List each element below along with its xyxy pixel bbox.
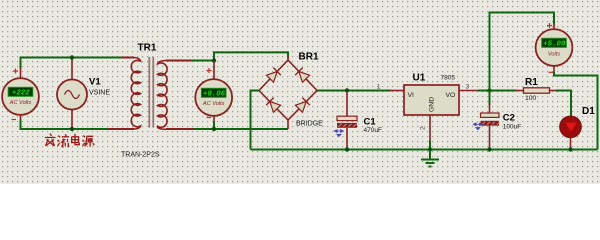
wire riser to bridge top bbox=[214, 52, 288, 60]
diode BR1 bottom-right bbox=[295, 98, 309, 113]
wire primary top lead red bbox=[122, 57, 134, 59]
wire VM2 bottom pin bbox=[213, 116, 215, 123]
transformer TR1 secondary coil bbox=[157, 61, 167, 130]
diode BR1 bottom-left bbox=[266, 98, 280, 113]
wire VM3 bottom pin red bbox=[553, 66, 555, 74]
wire V1 bottom pin bbox=[71, 109, 73, 129]
node primary top junction bbox=[70, 55, 74, 59]
capacitor C2 bbox=[481, 113, 500, 126]
wire node to R1 bbox=[490, 90, 517, 92]
wire bridge left to ground rail bbox=[251, 91, 260, 150]
wire R1 right lead bbox=[550, 90, 558, 92]
transformer TR1 core bbox=[148, 57, 150, 128]
polarity - mark VM2 bbox=[207, 117, 212, 119]
wire VM3 top pin red bbox=[553, 24, 555, 30]
polarity + mark VM3 bbox=[547, 23, 552, 28]
svg-text:3: 3 bbox=[466, 84, 470, 91]
marker C2 blue bbox=[473, 123, 482, 130]
diode BR1 top-right bbox=[295, 68, 309, 83]
node C1 bottom junction bbox=[345, 147, 349, 151]
svg-text:VO: VO bbox=[446, 92, 456, 99]
wire secondary bottom green to bridge bbox=[193, 128, 288, 130]
wire C2 bottom pin bbox=[489, 126, 491, 150]
wire ground rail bbox=[251, 149, 598, 151]
svg-text:U1: U1 bbox=[413, 73, 426, 84]
ground symbol bbox=[421, 150, 439, 167]
regulator U1 7805 box bbox=[404, 85, 459, 115]
wire secondary bottom lead red bbox=[166, 128, 194, 130]
svg-text:Volts: Volts bbox=[548, 51, 560, 57]
wire bridge bottom stub red bbox=[287, 119, 289, 129]
svg-text:AC Volts: AC Volts bbox=[202, 101, 225, 107]
svg-text:470uF: 470uF bbox=[364, 127, 382, 134]
wire primary bottom green bbox=[21, 120, 109, 130]
svg-text:TRAN-2P2S: TRAN-2P2S bbox=[121, 152, 160, 159]
svg-text:100uF: 100uF bbox=[503, 124, 521, 131]
polarity - mark VM3 bbox=[549, 71, 554, 73]
wire C1 to U1 bbox=[346, 90, 391, 92]
wire VM3 bottom to ground rail bbox=[554, 72, 598, 150]
svg-text:+5.00: +5.00 bbox=[543, 41, 566, 49]
node primary bottom junction bbox=[70, 127, 74, 131]
voltmeter PV3 DC Volts bbox=[536, 29, 573, 66]
wire C2 drop green bbox=[489, 91, 491, 106]
wire C1 top pin bbox=[346, 91, 348, 117]
diode BR1 top-left bbox=[266, 68, 280, 83]
voltmeter PV1 AC Volts bbox=[2, 78, 39, 115]
svg-text:BR1: BR1 bbox=[299, 52, 319, 63]
wire C2 top pin red bbox=[489, 104, 491, 114]
wire VM1 bottom pin bbox=[20, 115, 22, 122]
polarity + mark VM2 bbox=[207, 68, 212, 73]
svg-text:VSINE: VSINE bbox=[89, 90, 110, 97]
marker C1 blue bbox=[334, 130, 343, 137]
wire VM2 top pin bbox=[213, 61, 215, 80]
svg-text:VI: VI bbox=[408, 92, 415, 99]
polarity + mark VM1 bbox=[13, 69, 18, 74]
wire V1 top pin bbox=[71, 58, 73, 81]
svg-text:1: 1 bbox=[377, 84, 381, 91]
wire U1 gnd pin red bbox=[429, 115, 431, 142]
svg-text:R1: R1 bbox=[525, 77, 538, 88]
bridge BR1 diamond bbox=[259, 60, 317, 120]
svg-text:2: 2 bbox=[420, 126, 427, 130]
svg-text:C2: C2 bbox=[503, 113, 515, 124]
node secondary top junction bbox=[212, 58, 216, 62]
transformer TR1 primary coil bbox=[131, 58, 140, 130]
node secondary bottom junction bbox=[212, 127, 216, 131]
svg-text:V1: V1 bbox=[89, 77, 101, 88]
wire U1 pin3 lead bbox=[459, 90, 479, 92]
wire C1 bottom pin bbox=[346, 128, 348, 150]
wire secondary top lead red bbox=[166, 60, 193, 62]
svg-text:BRIDGE: BRIDGE bbox=[296, 121, 323, 128]
text 交流电源 (drawn strokes) bbox=[45, 134, 94, 147]
svg-text:TR1: TR1 bbox=[138, 43, 157, 54]
source V1 VSINE bbox=[57, 80, 87, 110]
node C2 bottom junction bbox=[487, 147, 491, 151]
LED D1 bbox=[560, 116, 581, 137]
node C2 top junction bbox=[487, 88, 491, 92]
wire VO to node bbox=[478, 90, 491, 92]
svg-text:AC Volts: AC Volts bbox=[9, 100, 32, 106]
svg-text:7805: 7805 bbox=[441, 75, 456, 82]
svg-text:100: 100 bbox=[525, 95, 537, 102]
voltmeter PV2 AC Volts bbox=[195, 79, 232, 116]
svg-text:+9.06: +9.06 bbox=[203, 91, 226, 99]
wire primary top green bbox=[21, 58, 125, 69]
capacitor C1 bbox=[337, 116, 357, 128]
node D1 bottom junction bbox=[568, 147, 572, 151]
wire R1 to D1 bbox=[556, 91, 571, 118]
svg-text:+222: +222 bbox=[12, 90, 30, 98]
node C1 top junction bbox=[345, 88, 349, 92]
wire VM1 top pin bbox=[20, 68, 22, 79]
wire U1 gnd green bbox=[429, 141, 431, 150]
wire VM2 bottom green bbox=[213, 122, 215, 130]
wire primary bottom lead red bbox=[107, 128, 134, 130]
wire bridge right to C1 bbox=[317, 90, 348, 92]
wire secondary top green bbox=[192, 60, 215, 62]
wire bridge top stub red bbox=[287, 56, 289, 61]
polarity - mark VM1 bbox=[12, 119, 17, 121]
resistor R1 bbox=[524, 88, 550, 93]
svg-text:D1: D1 bbox=[582, 106, 595, 117]
wire D1 bottom pin bbox=[570, 137, 572, 150]
wire riser to DC voltmeter bbox=[490, 13, 555, 91]
wire R1 left lead bbox=[515, 90, 524, 92]
wire U1 pin1 lead bbox=[390, 90, 404, 92]
node U1 gnd junction bbox=[428, 147, 432, 151]
svg-text:GND: GND bbox=[429, 97, 436, 112]
